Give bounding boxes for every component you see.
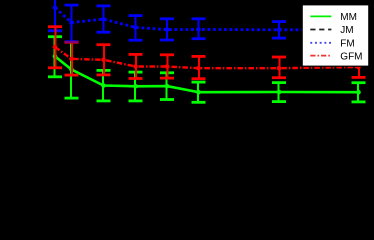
MM green error bar 2 [65,42,79,98]
FM blue error bar 5 [160,19,174,40]
FM blue error bar 6 [192,19,206,39]
GFM red error bar 1 [48,27,62,68]
GFM red marker 1 [53,45,58,50]
FM blue marker 6 [196,27,201,32]
GFM red error bar 3 [97,45,111,75]
FM blue error bar 4 [129,16,143,41]
MM green error bar 3 [97,70,111,101]
MM green marker 5 [165,84,170,89]
GFM red marker 5 [165,64,170,69]
GFM red error bar 4 [129,54,143,78]
MM green marker 2 [69,67,74,72]
FM blue marker 5 [165,27,170,32]
GFM red marker 4 [133,64,138,69]
MM green marker 4 [133,84,138,89]
FM blue error bar 1 [48,0,62,31]
legend JM sample [310,29,331,31]
legend GFM sample [310,55,331,57]
GFM red error bar 5 [160,55,174,78]
MM green error bar 5 [160,73,174,100]
FM blue error bar 7 [272,22,286,38]
GFM red error bar 8 [352,56,366,78]
GFM red marker 8 [356,65,361,70]
MM green marker 6 [196,90,201,95]
FM blue marker 1 [53,5,58,10]
FM blue error bar 8 [352,22,366,38]
MM green error bar 1 [48,37,62,77]
GFM red marker 2 [69,57,74,62]
legend MM sample [310,15,331,17]
MM green error bar 6 [192,82,206,102]
MM green error bar 8 [352,83,366,102]
MM green error bar 7 [272,83,286,102]
svg-text:MM: MM [340,12,357,23]
legend box [302,5,369,66]
FM blue data line [55,8,359,30]
FM blue marker 7 [277,28,282,33]
GFM red marker 7 [277,66,282,71]
MM green marker 8 [356,90,361,95]
legend FM sample [310,42,331,44]
svg-text:JM: JM [340,25,353,36]
GFM red data line [55,47,359,68]
FM blue marker 4 [133,25,138,30]
FM blue error bar 3 [97,6,111,32]
MM green marker 3 [101,83,106,88]
FM blue marker 3 [101,17,106,22]
GFM red error bar 6 [192,56,206,78]
MM green marker 7 [277,90,282,95]
MM green error bar 4 [129,72,143,101]
svg-text:GFM: GFM [340,51,362,62]
GFM red error bar 7 [272,57,286,78]
FM blue marker 2 [69,20,74,25]
GFM red marker 3 [101,58,106,63]
MM green data line [55,56,359,92]
FM blue marker 8 [356,28,361,33]
svg-text:FM: FM [340,39,354,50]
GFM red error bar 2 [65,42,79,75]
MM green marker 1 [53,54,58,59]
GFM red marker 6 [196,66,201,71]
FM blue error bar 2 [65,5,79,42]
blue/red cap overlap blend (cluster 2) [65,41,78,44]
